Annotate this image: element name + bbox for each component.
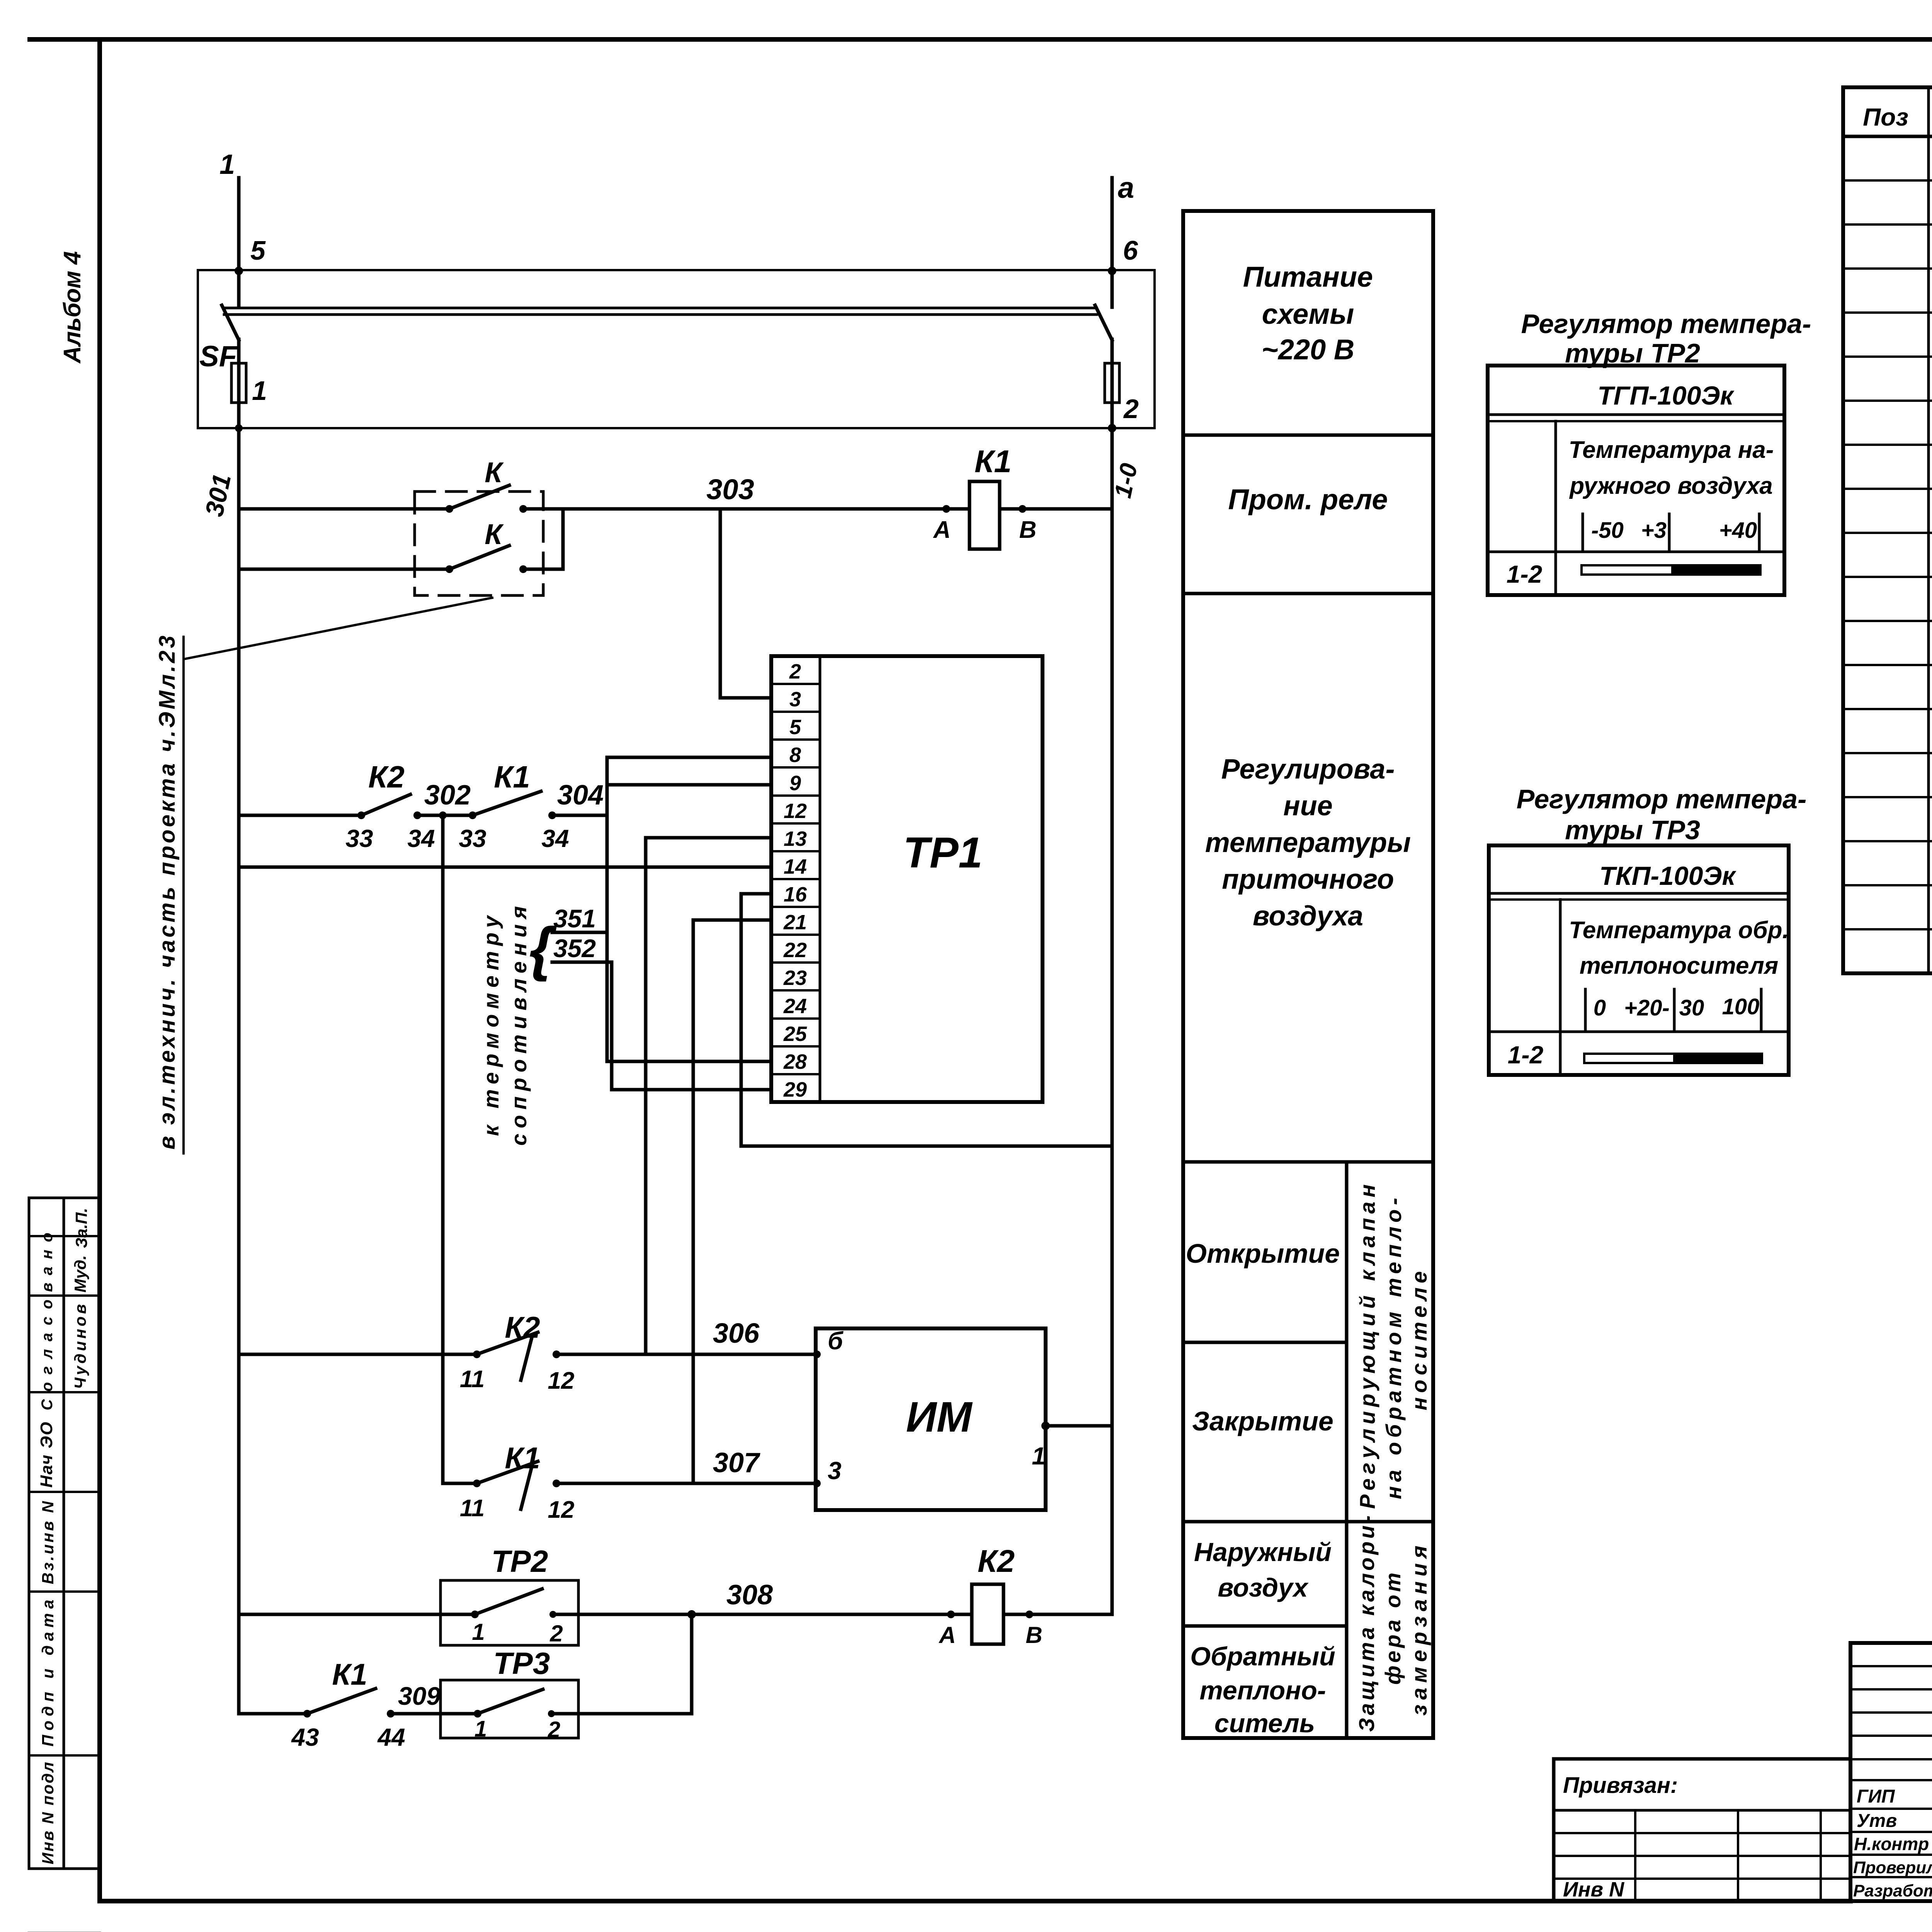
svg-text:воздуха: воздуха — [1253, 901, 1363, 932]
svg-text:302: 302 — [424, 780, 471, 811]
svg-text:теплоно-: теплоно- — [1199, 1676, 1326, 1705]
svg-text:~220 В: ~220 В — [1262, 333, 1355, 366]
svg-text:Регулятор темпера-: Регулятор темпера- — [1521, 309, 1811, 339]
svg-text:ружного воздуха: ружного воздуха — [1569, 473, 1772, 499]
svg-text:Закрытие: Закрытие — [1192, 1406, 1333, 1436]
svg-text:К1: К1 — [494, 760, 530, 794]
parts table row lines — [1843, 180, 1932, 929]
svg-text:носителе: носителе — [1407, 1271, 1431, 1410]
parts table outline — [1843, 87, 1932, 973]
svg-text:ИМ: ИМ — [906, 1393, 973, 1441]
svg-text:Наружный: Наружный — [1194, 1537, 1332, 1567]
svg-text:0: 0 — [1594, 995, 1606, 1020]
TP2 scale ticks — [1583, 514, 1759, 552]
contact TP2 (1-2) — [471, 1611, 479, 1618]
svg-text:К2: К2 — [368, 760, 405, 794]
wire to terminal 29 — [612, 1088, 771, 1092]
svg-text:К1: К1 — [975, 444, 1012, 479]
svg-text:25: 25 — [783, 1022, 807, 1046]
note underline — [182, 637, 185, 1153]
SF left pole lead to fuse — [237, 339, 241, 363]
node 2 — [1108, 424, 1116, 432]
svg-text:6: 6 — [1123, 235, 1138, 265]
SF right pole blade — [1095, 305, 1112, 340]
svg-text:1: 1 — [1032, 1442, 1046, 1470]
svg-text:Привязан:: Привязан: — [1563, 1773, 1678, 1798]
node A (K1 coil) — [942, 505, 950, 513]
fuse FU left — [231, 363, 246, 403]
svg-text:фера от: фера от — [1381, 1573, 1405, 1685]
svg-text:33: 33 — [345, 825, 373, 852]
node B (K1 coil) — [1019, 505, 1026, 513]
svg-text:ТГП-100Эк: ТГП-100Эк — [1597, 381, 1735, 410]
function column outline — [1183, 211, 1433, 1738]
privyazan header line — [1554, 1809, 1850, 1812]
svg-text:Н.контр: Н.контр — [1854, 1834, 1929, 1854]
margin stamp outer strip — [29, 1198, 100, 1869]
svg-text:ТР3: ТР3 — [493, 1646, 550, 1680]
wire 307 row — [443, 1482, 816, 1485]
svg-text:Согласовано: Согласовано — [39, 1233, 56, 1410]
svg-text:температуры: температуры — [1205, 827, 1411, 858]
svg-text:В: В — [1019, 517, 1037, 543]
svg-text:44: 44 — [377, 1723, 405, 1751]
svg-text:1-2: 1-2 — [1507, 560, 1543, 588]
svg-text:Пром. реле: Пром. реле — [1228, 483, 1388, 515]
svg-text:+3: +3 — [1641, 518, 1667, 543]
fuse FU right — [1105, 363, 1119, 403]
svg-text:туры ТР3: туры ТР3 — [1565, 815, 1700, 845]
net vertical (352/29) — [610, 962, 614, 1090]
wire TP3 to junction vertical — [551, 1712, 692, 1716]
svg-text:12: 12 — [548, 1497, 575, 1523]
svg-text:Температура на-: Температура на- — [1569, 437, 1774, 463]
svg-text:351: 351 — [553, 904, 596, 933]
wire terminal16 to right bus — [741, 894, 1112, 1146]
svg-text:13: 13 — [784, 827, 807, 850]
svg-text:А: А — [938, 1622, 956, 1648]
svg-text:Защита калори-: Защита калори- — [1354, 1515, 1379, 1732]
wire row 33-34, from bus — [239, 814, 361, 817]
TP2 range bar — [1582, 565, 1760, 575]
node at IM pin 6 — [813, 1350, 821, 1358]
inner vertical divider — [1345, 1162, 1349, 1738]
net vertical (8/9/304/351/28) — [605, 757, 609, 1061]
svg-text:Поз: Поз — [1863, 103, 1908, 131]
svg-text:+40: +40 — [1719, 518, 1757, 543]
sheet top border line — [30, 37, 1932, 42]
relay coil K1 — [969, 481, 1000, 549]
svg-text:1: 1 — [219, 149, 235, 180]
svg-text:306: 306 — [713, 1318, 760, 1349]
svg-text:5: 5 — [250, 235, 266, 265]
svg-text:К1: К1 — [505, 1441, 540, 1475]
regulator TP1 box — [771, 656, 1043, 1102]
wire 302 vertical drop — [441, 815, 445, 1483]
TP2 header line — [1488, 413, 1784, 416]
TP2 regulator box — [1488, 366, 1784, 595]
wire to terminal 9 — [607, 783, 771, 787]
actuator IM box — [816, 1328, 1046, 1510]
svg-text:23: 23 — [783, 966, 807, 990]
TP3 header line — [1489, 892, 1789, 895]
svg-text:ТКП-100Эк: ТКП-100Эк — [1599, 861, 1736, 891]
svg-text:Муд.: Муд. — [71, 1255, 89, 1293]
svg-text:Подп и дата: Подп и дата — [39, 1600, 57, 1747]
svg-text:ние: ние — [1283, 791, 1333, 821]
wire 303 row left segment — [239, 507, 449, 511]
svg-text:11: 11 — [460, 1366, 485, 1393]
wire 309 row from bus — [239, 1712, 307, 1716]
svg-text:1: 1 — [472, 1619, 485, 1645]
TP3 row line — [1489, 1031, 1789, 1033]
wire terminal21 drop — [693, 920, 771, 1483]
stamp row lines — [29, 1236, 100, 1755]
svg-text:Обратный: Обратный — [1190, 1642, 1335, 1671]
svg-text:Питание: Питание — [1243, 261, 1373, 293]
node at IM pin 3 — [813, 1480, 821, 1487]
svg-text:307: 307 — [713, 1447, 760, 1478]
svg-text:34: 34 — [407, 825, 435, 852]
svg-text:ТР1: ТР1 — [903, 828, 982, 877]
svg-text:1: 1 — [474, 1716, 487, 1742]
wire junction drop to TP3 row — [690, 1614, 694, 1714]
svg-text:К1: К1 — [332, 1657, 367, 1691]
TP3 inner vertical — [1559, 900, 1562, 1075]
wire a (right supply lead) — [1111, 178, 1114, 307]
svg-text:ГИП: ГИП — [1857, 1786, 1895, 1807]
svg-text:12: 12 — [784, 799, 807, 823]
wire 1 (left supply lead) — [237, 178, 241, 307]
wire 309 — [391, 1712, 478, 1716]
svg-text:А: А — [933, 517, 951, 543]
svg-text:5: 5 — [789, 716, 801, 739]
privyazan block outline — [1554, 1759, 1850, 1901]
svg-text:-50: -50 — [1591, 518, 1624, 543]
wire to terminal 14 — [239, 866, 771, 869]
title block outline — [1850, 1643, 1932, 1901]
svg-text:30: 30 — [1679, 995, 1704, 1020]
svg-text:2: 2 — [789, 660, 801, 683]
svg-text:308: 308 — [726, 1580, 773, 1611]
svg-text:воздух: воздух — [1218, 1573, 1309, 1602]
svg-text:303: 303 — [706, 473, 754, 505]
svg-text:К: К — [485, 456, 504, 488]
node 6 — [1108, 267, 1116, 275]
privyazan grid columns — [1635, 1810, 1821, 1901]
svg-text:ТР2: ТР2 — [492, 1544, 548, 1578]
wire terminal13 drop — [646, 838, 771, 1354]
wire 351 — [552, 931, 607, 934]
TP2 row line — [1488, 551, 1784, 553]
svg-text:352: 352 — [553, 934, 596, 963]
privyazan grid rows — [1554, 1833, 1850, 1879]
wire IM-1 to right bus — [1046, 1424, 1112, 1428]
svg-text:Инв N: Инв N — [1563, 1878, 1624, 1901]
svg-text:9: 9 — [789, 772, 801, 795]
thermostat TP3 contact box — [440, 1680, 578, 1738]
pointer line to K box — [185, 598, 492, 659]
svg-text:3: 3 — [789, 688, 801, 711]
contact K1 (43-44) — [303, 1710, 311, 1718]
svg-text:2: 2 — [548, 1717, 560, 1742]
svg-text:11: 11 — [460, 1495, 485, 1522]
svg-text:34: 34 — [541, 825, 569, 852]
wire 303 middle segment — [523, 507, 946, 511]
svg-text:22: 22 — [783, 939, 807, 962]
relay coil K2 — [972, 1584, 1003, 1644]
thermostat TP2 contact box — [440, 1580, 578, 1645]
svg-text:33: 33 — [459, 825, 486, 852]
wire 303 to right bus — [1022, 507, 1112, 511]
TP3 regulator box — [1489, 845, 1789, 1075]
svg-text:Инв N подл: Инв N подл — [39, 1762, 57, 1864]
svg-text:Утв: Утв — [1857, 1811, 1897, 1831]
wire 1-0 right bus — [1031, 403, 1112, 1614]
svg-text:+20-: +20- — [1624, 995, 1670, 1020]
svg-text:12: 12 — [548, 1367, 575, 1394]
svg-text:К: К — [485, 518, 504, 550]
svg-text:8: 8 — [789, 743, 801, 767]
row divider lines — [1183, 435, 1433, 1522]
svg-text:14: 14 — [784, 855, 807, 878]
svg-text:1-2: 1-2 — [1508, 1041, 1544, 1069]
svg-text:схемы: схемы — [1262, 298, 1354, 330]
relay contact K (upper, in dashed box) — [446, 505, 453, 513]
svg-text:43: 43 — [291, 1723, 319, 1751]
svg-text:3: 3 — [828, 1457, 842, 1485]
signature table rows — [1850, 1666, 1932, 1877]
svg-text:21: 21 — [783, 911, 807, 934]
node 1 (left) — [235, 424, 243, 432]
SF left pole blade — [222, 305, 239, 340]
svg-text:За.П.: За.П. — [72, 1208, 90, 1248]
svg-text:28: 28 — [783, 1050, 807, 1073]
svg-text:К2: К2 — [978, 1544, 1015, 1579]
wire 304 — [552, 814, 607, 817]
node B (K2 coil) — [1026, 1611, 1033, 1618]
svg-text:29: 29 — [783, 1078, 807, 1101]
TP1 terminal numbers — [783, 660, 807, 1101]
TP2 inner vertical — [1554, 421, 1557, 595]
relay contact K (lower, in dashed box) — [446, 565, 453, 573]
wire to terminal 8 — [607, 756, 771, 759]
svg-text:Регулирова-: Регулирова- — [1221, 754, 1395, 785]
node 302 junction — [439, 811, 447, 819]
svg-text:В: В — [1026, 1622, 1042, 1648]
svg-text:100: 100 — [1722, 994, 1760, 1019]
svg-text:2: 2 — [1123, 394, 1139, 424]
contact K2 (33-34) — [357, 811, 365, 819]
TP3 scale ticks — [1585, 989, 1761, 1032]
svg-text:2: 2 — [549, 1621, 563, 1646]
contact TP3 (1-2) — [474, 1710, 481, 1718]
wire lower K row — [239, 509, 563, 569]
svg-text:Регулятор темпера-: Регулятор темпера- — [1517, 784, 1807, 814]
TP1 terminal cell lines — [771, 684, 820, 1074]
frame bottom border — [100, 1899, 1850, 1903]
SF right pole lead to fuse — [1111, 339, 1114, 363]
wire 303 drop to terminal 3 — [720, 509, 771, 698]
TP3 range bar — [1584, 1054, 1762, 1063]
contact K1 (33-34) — [469, 811, 476, 819]
node 308 junction — [687, 1610, 696, 1619]
node 5 — [235, 267, 243, 275]
wire 302 segment — [417, 814, 473, 817]
wire 352 — [552, 961, 612, 964]
contact K2 (11-12 break) — [473, 1350, 481, 1358]
svg-text:К2: К2 — [505, 1310, 540, 1344]
contact K1 (11-12 break) — [473, 1480, 481, 1487]
svg-text:16: 16 — [784, 883, 807, 906]
breaker SF box outline — [198, 270, 1155, 428]
svg-text:теплоносителя: теплоносителя — [1580, 952, 1779, 979]
svg-text:Разработ: Разработ — [1853, 1881, 1932, 1900]
TP1 terminal strip divider — [819, 656, 821, 1102]
wire 306 row — [239, 1353, 816, 1356]
wire to terminal 28 — [607, 1060, 771, 1063]
svg-text:а: а — [1118, 172, 1134, 204]
svg-text:Температура обр.: Температура обр. — [1569, 917, 1789, 944]
svg-text:309: 309 — [398, 1682, 440, 1710]
parts table column lines — [1929, 87, 1932, 973]
dashed box around K contacts — [415, 492, 543, 595]
svg-text:24: 24 — [783, 995, 807, 1018]
node IM pin 1 — [1041, 1422, 1050, 1430]
svg-text:1: 1 — [252, 376, 267, 406]
svg-text:б: б — [828, 1327, 844, 1355]
svg-text:Проверил: Проверил — [1853, 1858, 1932, 1877]
SF coupling double line — [224, 308, 1097, 315]
svg-text:приточного: приточного — [1222, 864, 1394, 895]
svg-text:Открытие: Открытие — [1186, 1238, 1340, 1269]
svg-text:Альбом 4: Альбом 4 — [59, 251, 86, 364]
frame left border — [97, 39, 102, 1901]
wire 301 left bus — [237, 403, 241, 1714]
svg-text:в эл.технич. часть проекта ч.Э: в эл.технич. часть проекта ч.ЭМл.23 — [155, 636, 180, 1150]
svg-text:304: 304 — [557, 780, 604, 811]
svg-text:ситель: ситель — [1214, 1709, 1315, 1738]
node A (K2 coil) — [947, 1611, 955, 1618]
wire 308 middle — [553, 1613, 951, 1616]
wire 308 row from bus — [239, 1613, 475, 1616]
parts table header underline — [1843, 135, 1932, 138]
